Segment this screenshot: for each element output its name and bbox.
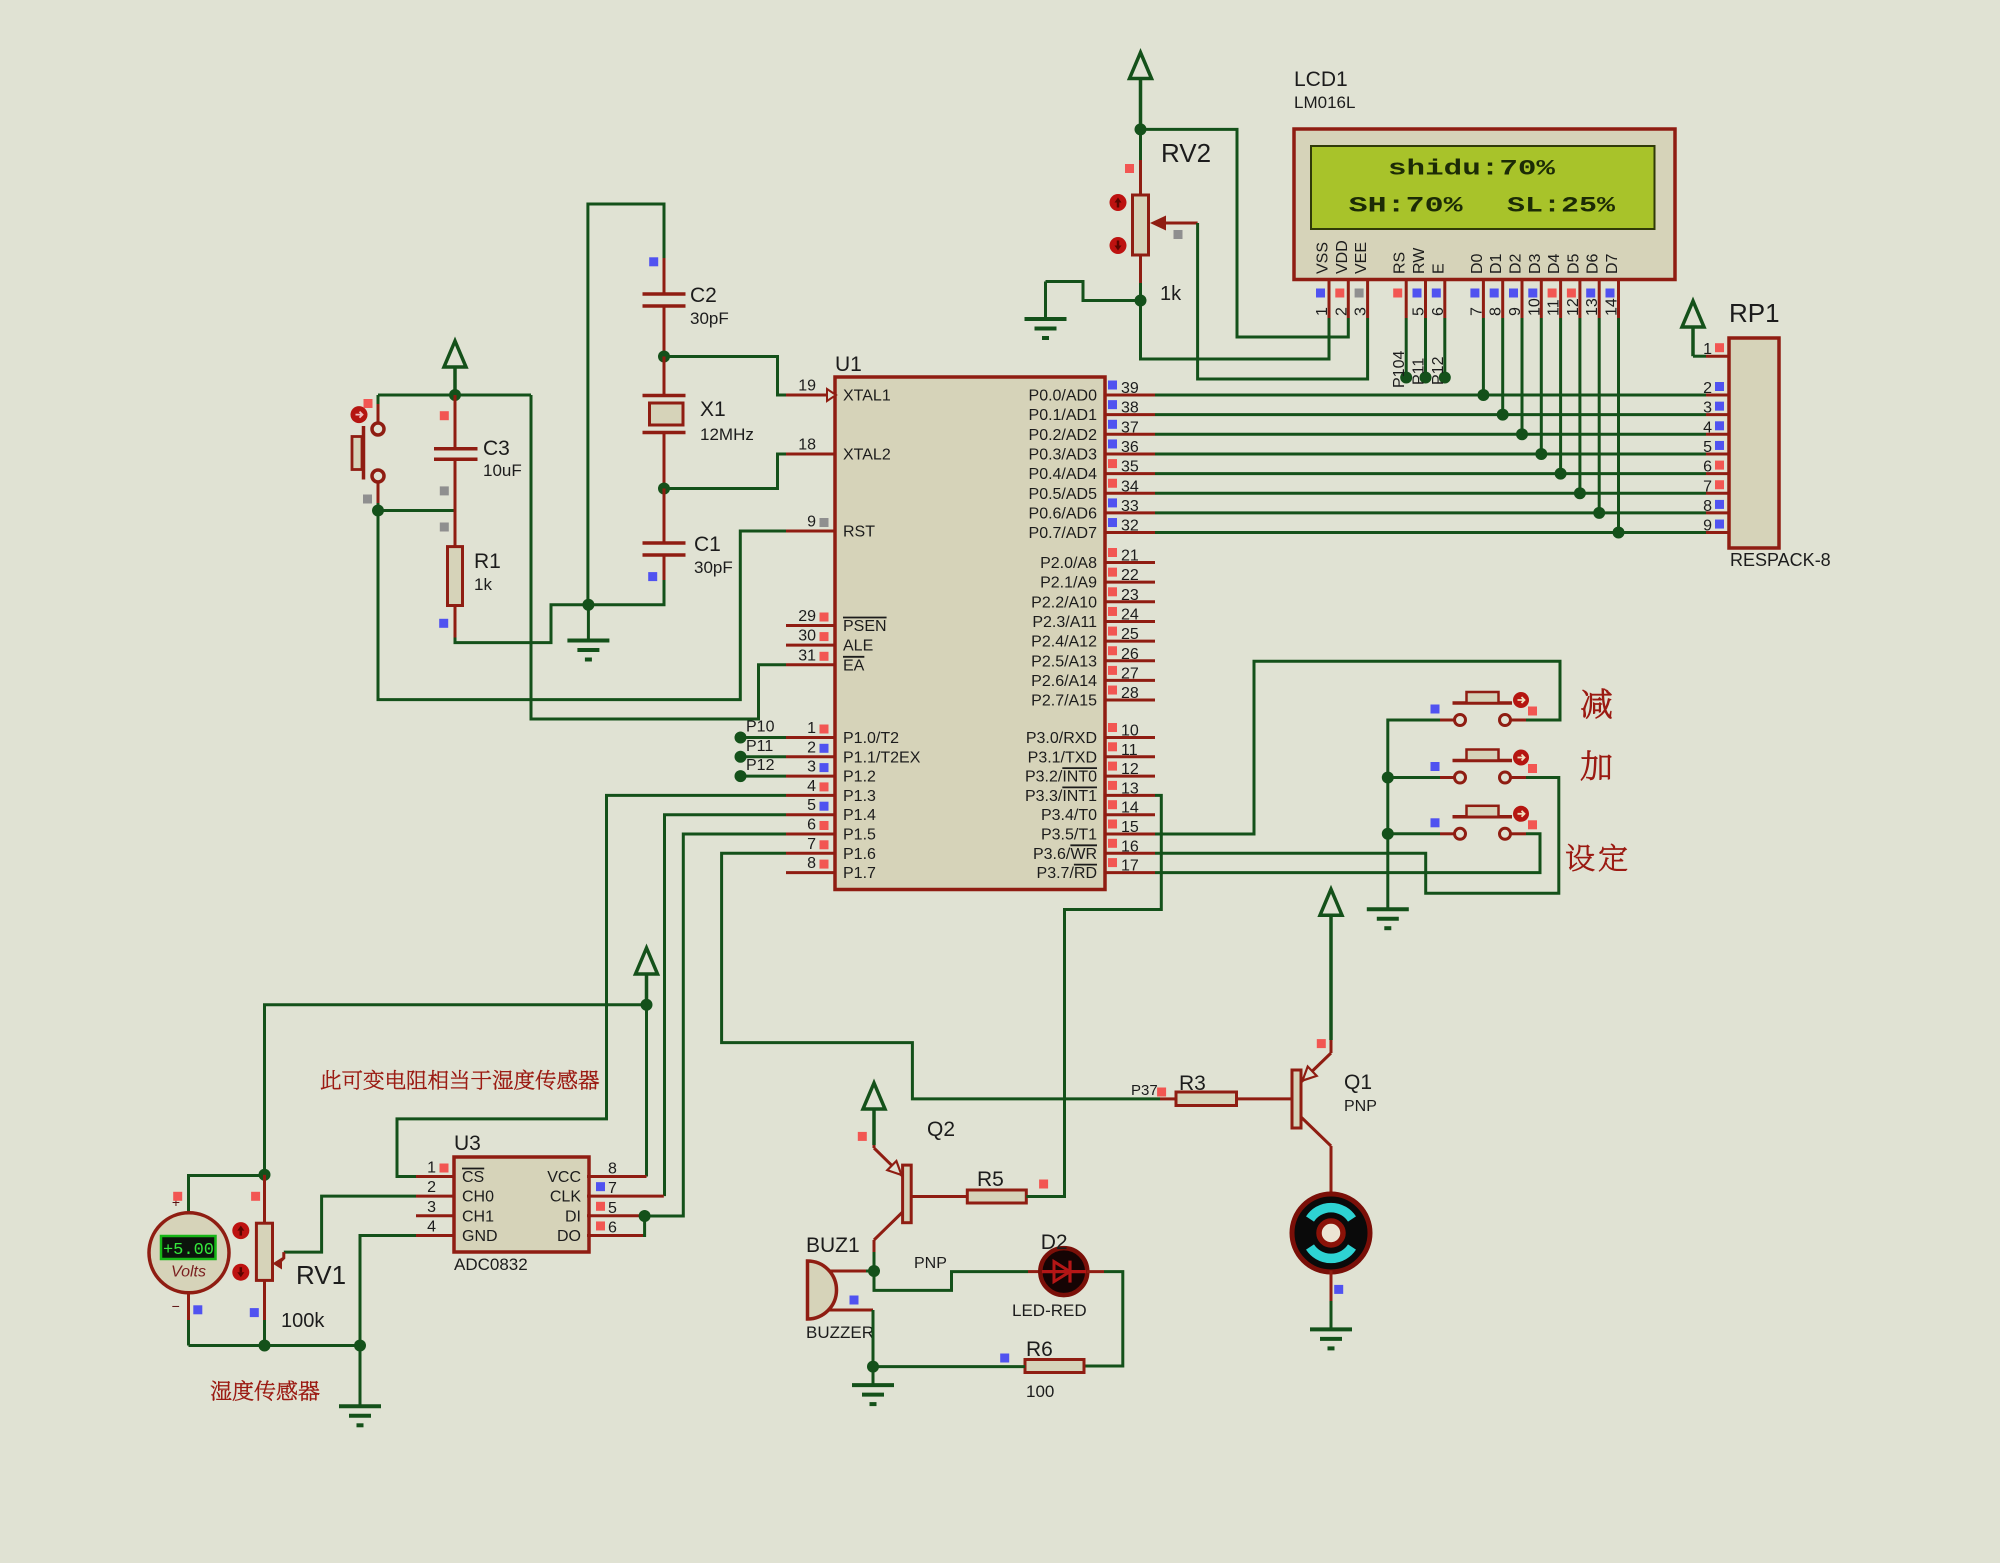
pin arrow XTAL1 bbox=[827, 389, 836, 401]
svg-text:Q2: Q2 bbox=[927, 1118, 955, 1141]
pin 24 P2.3/A11 bbox=[1032, 606, 1155, 631]
svg-text:30pF: 30pF bbox=[694, 558, 733, 577]
pin 11 P3.1/TXD bbox=[1028, 742, 1155, 767]
svg-text:11: 11 bbox=[1121, 742, 1138, 759]
svg-text:11: 11 bbox=[1546, 299, 1563, 316]
svg-text:Volts: Volts bbox=[171, 1264, 206, 1281]
pin 6 RP1 bbox=[1703, 459, 1729, 476]
svg-text:+5.00: +5.00 bbox=[163, 1241, 214, 1260]
LCD screen bbox=[1311, 146, 1655, 229]
pin 10 P3.0/RXD bbox=[1026, 723, 1155, 748]
svg-text:12: 12 bbox=[1121, 761, 1139, 778]
node P12 wire end bbox=[735, 770, 747, 782]
svg-text:P104: P104 bbox=[1391, 351, 1408, 388]
svg-text:36: 36 bbox=[1121, 439, 1139, 456]
svg-text:14: 14 bbox=[1604, 298, 1621, 316]
svg-text:29: 29 bbox=[798, 608, 816, 625]
pin 12 P3.2/INT0 bbox=[1025, 761, 1155, 786]
svg-text:6: 6 bbox=[807, 817, 816, 834]
IC U1 AT89C51 body bbox=[835, 377, 1105, 890]
wire btn3 left bbox=[1388, 832, 1440, 835]
pin 14 P3.4/T0 bbox=[1041, 800, 1155, 825]
pin 4 P1.3 bbox=[786, 778, 876, 805]
pin LCD D6 bbox=[1584, 253, 1602, 318]
pin 7 U3 CLK bbox=[550, 1180, 664, 1206]
svg-text:CH1: CH1 bbox=[462, 1208, 494, 1225]
svg-text:D3: D3 bbox=[1527, 253, 1544, 274]
svg-text:8: 8 bbox=[608, 1161, 617, 1178]
svg-text:X1: X1 bbox=[700, 398, 726, 421]
pin 35 P0.4/AD4 bbox=[1029, 459, 1155, 484]
svg-text:P2.7/A15: P2.7/A15 bbox=[1031, 693, 1097, 710]
svg-text:R6: R6 bbox=[1026, 1338, 1053, 1361]
svg-text:RV1: RV1 bbox=[296, 1260, 346, 1290]
pin 25 P2.4/A12 bbox=[1031, 626, 1155, 651]
IC U3 ADC0832 body bbox=[454, 1157, 589, 1252]
svg-text:P1.2: P1.2 bbox=[843, 769, 876, 786]
svg-text:P3.5/T1: P3.5/T1 bbox=[1041, 827, 1097, 844]
svg-text:2: 2 bbox=[807, 739, 816, 756]
wire button-to-C3 bottom bbox=[378, 509, 455, 512]
wire button bottom bbox=[377, 483, 380, 504]
svg-text:P1.1/T2EX: P1.1/T2EX bbox=[843, 749, 921, 766]
pin 5 RP1 bbox=[1703, 439, 1729, 456]
svg-text:P0.5/AD5: P0.5/AD5 bbox=[1029, 486, 1098, 503]
svg-text:30pF: 30pF bbox=[690, 309, 729, 328]
node RV2 bottom junction bbox=[1135, 295, 1147, 307]
pin 30 ALE bbox=[786, 628, 873, 655]
pin 6 P1.5 bbox=[786, 817, 876, 844]
svg-text:CLK: CLK bbox=[550, 1189, 581, 1206]
svg-text:100k: 100k bbox=[281, 1310, 325, 1332]
marker blue square (C2) bbox=[649, 257, 658, 266]
ground symbol (motor) bbox=[1310, 1327, 1352, 1331]
pin 34 P0.5/AD5 bbox=[1029, 478, 1155, 503]
pin 2 U3 CH0 bbox=[416, 1179, 494, 1206]
wire RP1 pin1 bbox=[1693, 355, 1706, 358]
pin 1 U3 CS bbox=[416, 1160, 484, 1187]
svg-text:C3: C3 bbox=[483, 437, 510, 460]
pin LCD RW bbox=[1411, 247, 1429, 318]
pin 5 U3 DI bbox=[565, 1200, 640, 1226]
marker grey square (RV2) bbox=[1174, 230, 1183, 239]
svg-text:ALE: ALE bbox=[843, 638, 873, 655]
svg-text:P12: P12 bbox=[746, 757, 775, 774]
svg-text:R1: R1 bbox=[474, 550, 501, 573]
wire ground to RV2 bbox=[1046, 282, 1141, 301]
wire P0.2 bus bbox=[1155, 433, 1706, 436]
svg-text:P2.6/A14: P2.6/A14 bbox=[1031, 673, 1097, 690]
svg-text:BUZZER: BUZZER bbox=[806, 1323, 874, 1342]
svg-text:P3.0/RXD: P3.0/RXD bbox=[1026, 730, 1097, 747]
indicator up (RV1) bbox=[232, 1222, 249, 1239]
svg-text:10uF: 10uF bbox=[483, 461, 522, 480]
svg-text:E: E bbox=[1430, 263, 1447, 274]
node RV1 bottom junction bbox=[259, 1340, 271, 1352]
wire P0.0 bus bbox=[1155, 394, 1706, 397]
wire D2 cathode to R6 bbox=[1084, 1272, 1123, 1366]
marker blue square (motor) bbox=[1334, 1285, 1343, 1294]
svg-text:XTAL2: XTAL2 bbox=[843, 446, 891, 463]
svg-text:P3.2/INT0: P3.2/INT0 bbox=[1025, 769, 1097, 786]
pin 26 P2.5/A13 bbox=[1031, 646, 1155, 671]
pushbutton set bbox=[1440, 806, 1529, 840]
node buzzer ground junction bbox=[867, 1361, 879, 1373]
svg-text:10: 10 bbox=[1526, 298, 1543, 316]
label jian (decrease) bbox=[1582, 689, 1612, 719]
node C2-X1 junction bbox=[658, 351, 670, 363]
svg-text:D4: D4 bbox=[1546, 253, 1563, 274]
wire P0.5 bus bbox=[1155, 492, 1706, 495]
resistor R6 bbox=[1025, 1360, 1084, 1373]
wire P1.5 to U3 DI bbox=[640, 834, 786, 1216]
svg-text:D0: D0 bbox=[1469, 253, 1486, 274]
pin LCD VEE bbox=[1353, 242, 1371, 318]
pin 13 P3.3/INT1 bbox=[1025, 780, 1155, 805]
wire LCD D3 drop bbox=[1540, 318, 1543, 454]
pin LCD VDD bbox=[1333, 240, 1351, 318]
wire LCD D7 drop bbox=[1617, 318, 1620, 533]
svg-text:5: 5 bbox=[807, 797, 816, 814]
svg-text:R5: R5 bbox=[977, 1168, 1004, 1191]
wire P3.7 to btn3 bbox=[1155, 834, 1540, 873]
svg-text:D6: D6 bbox=[1585, 253, 1602, 274]
node P0.6-D6 junction bbox=[1593, 507, 1605, 519]
wire CH0 to RV1 wiper bbox=[284, 1196, 416, 1252]
pin 39 P0.0/AD0 bbox=[1029, 380, 1155, 405]
resistor R3 bbox=[1160, 1092, 1292, 1106]
svg-text:P1.0/T2: P1.0/T2 bbox=[843, 730, 899, 747]
node bus-btn3 junction bbox=[1382, 828, 1394, 840]
node P0.5-D5 junction bbox=[1574, 487, 1586, 499]
marker grey square (button) bbox=[363, 495, 372, 504]
svg-text:15: 15 bbox=[1121, 819, 1139, 836]
wire R5 to P3.3 bbox=[1026, 795, 1161, 1196]
marker blue square (RV1) bbox=[250, 1308, 259, 1317]
pin LCD D4 bbox=[1546, 253, 1564, 318]
svg-text:P2.2/A10: P2.2/A10 bbox=[1031, 594, 1097, 611]
svg-text:P0.4/AD4: P0.4/AD4 bbox=[1029, 466, 1098, 483]
svg-text:39: 39 bbox=[1121, 380, 1139, 397]
node ground junction (crystal) bbox=[582, 599, 594, 611]
resistor R5 bbox=[967, 1190, 1026, 1203]
capacitor C3 bbox=[434, 395, 478, 511]
transistor Q2 PNP bbox=[874, 1145, 967, 1252]
svg-text:D1: D1 bbox=[1488, 253, 1505, 274]
pin 1 P1.0/T2 bbox=[786, 720, 899, 747]
resistor R1 bbox=[448, 511, 463, 638]
svg-text:U1: U1 bbox=[835, 353, 862, 376]
pin 5 P1.4 bbox=[786, 797, 876, 824]
svg-text:P3.4/T0: P3.4/T0 bbox=[1041, 807, 1097, 824]
node P0.1-D1 junction bbox=[1497, 409, 1509, 421]
svg-text:24: 24 bbox=[1121, 606, 1139, 623]
marker red square (RV1) bbox=[251, 1192, 260, 1201]
wire crystal top rail bbox=[588, 204, 664, 605]
svg-text:LED-RED: LED-RED bbox=[1012, 1301, 1087, 1320]
label jia (increase) bbox=[1581, 751, 1611, 781]
svg-text:7: 7 bbox=[807, 836, 816, 853]
svg-text:R3: R3 bbox=[1179, 1072, 1206, 1095]
indicator down (RV1) bbox=[232, 1264, 249, 1281]
transistor Q1 PNP bbox=[1292, 1040, 1331, 1185]
svg-text:RST: RST bbox=[843, 524, 875, 541]
svg-text:8: 8 bbox=[807, 855, 816, 872]
pin 33 P0.6/AD6 bbox=[1029, 498, 1155, 523]
svg-text:P11: P11 bbox=[746, 738, 773, 755]
svg-text:P12: P12 bbox=[1430, 356, 1447, 385]
wire LCD D6 drop bbox=[1598, 318, 1601, 513]
voltmeter +5.00 bbox=[149, 1213, 229, 1293]
ground symbol (sensor) bbox=[359, 1346, 362, 1407]
pin 9 RP1 bbox=[1703, 518, 1729, 535]
wire RV2 bottom bbox=[1139, 283, 1142, 301]
svg-text:37: 37 bbox=[1121, 419, 1139, 436]
svg-text:SH:70%: SH:70% bbox=[1349, 194, 1464, 219]
svg-text:P37: P37 bbox=[1131, 1082, 1158, 1099]
svg-text:18: 18 bbox=[798, 436, 816, 453]
svg-text:P10: P10 bbox=[746, 719, 775, 736]
wire VEE net bbox=[1198, 223, 1368, 379]
svg-text:PNP: PNP bbox=[1344, 1098, 1377, 1115]
svg-text:C1: C1 bbox=[694, 533, 721, 556]
svg-text:VEE: VEE bbox=[1353, 242, 1370, 274]
wire DO to DI bbox=[643, 1216, 645, 1235]
svg-text:13: 13 bbox=[1121, 780, 1139, 797]
power symbol VCC (Q1) bbox=[1320, 889, 1342, 915]
svg-text:12: 12 bbox=[1565, 298, 1582, 316]
svg-text:VCC: VCC bbox=[547, 1169, 581, 1186]
svg-text:6: 6 bbox=[608, 1219, 617, 1236]
svg-text:9: 9 bbox=[807, 514, 816, 531]
pin 4 RP1 bbox=[1703, 419, 1729, 436]
pin 21 P2.0/A8 bbox=[1040, 548, 1155, 573]
wire bottom rail (sensor) bbox=[189, 1344, 361, 1347]
pin 8 P1.7 bbox=[786, 855, 876, 882]
wire LCD D2 drop bbox=[1521, 318, 1524, 434]
svg-text:C2: C2 bbox=[690, 284, 717, 307]
pin LCD D3 bbox=[1526, 253, 1544, 318]
wire VDD net bbox=[1141, 129, 1349, 337]
svg-text:23: 23 bbox=[1121, 587, 1139, 604]
pin 18 XTAL2 bbox=[786, 436, 891, 463]
wire LCD D5 drop bbox=[1578, 318, 1581, 493]
node reset-bottom junction bbox=[372, 505, 384, 517]
svg-text:19: 19 bbox=[798, 378, 816, 395]
wire P0.6 bus bbox=[1155, 511, 1706, 514]
wire junction to D2 anode bbox=[874, 1271, 1028, 1290]
svg-text:RP1: RP1 bbox=[1729, 298, 1780, 328]
pin 3 RP1 bbox=[1703, 400, 1729, 417]
svg-text:5: 5 bbox=[1411, 307, 1428, 316]
node P11 wire end bbox=[735, 751, 747, 763]
wire LCD D0 drop bbox=[1482, 318, 1485, 395]
marker blue square (C1) bbox=[648, 572, 657, 581]
svg-text:1k: 1k bbox=[1160, 283, 1182, 305]
marker red square (btn1) bbox=[1528, 707, 1537, 716]
pushbutton reset bbox=[351, 406, 385, 482]
marker blue square (BUZ1) bbox=[850, 1296, 859, 1305]
svg-text:13: 13 bbox=[1584, 298, 1601, 316]
wire P1.3 to U3 CS bbox=[397, 795, 786, 1176]
wire P3.5 to btn1 bbox=[1155, 661, 1560, 834]
power symbol VCC (RV2) bbox=[1130, 53, 1152, 79]
svg-text:5: 5 bbox=[608, 1200, 617, 1217]
svg-text:P1.5: P1.5 bbox=[843, 827, 876, 844]
wire EA net bbox=[531, 395, 786, 719]
indicator up (RV2) bbox=[1110, 194, 1127, 211]
pin 22 P2.1/A9 bbox=[1040, 567, 1155, 592]
node P10 wire end bbox=[735, 732, 747, 744]
wire LCD D4 drop bbox=[1559, 318, 1562, 474]
svg-text:P2.4/A12: P2.4/A12 bbox=[1031, 634, 1097, 651]
wire P0.1 bus bbox=[1155, 413, 1706, 416]
ground symbol (RV2) bbox=[1044, 282, 1047, 320]
pin LCD RS bbox=[1392, 252, 1409, 318]
svg-text:P11: P11 bbox=[1411, 358, 1428, 385]
svg-text:12MHz: 12MHz bbox=[700, 425, 754, 444]
svg-text:P3.6/WR: P3.6/WR bbox=[1033, 846, 1097, 863]
ground symbol (buttons) bbox=[1367, 907, 1409, 911]
wire LCD D1 drop bbox=[1501, 318, 1504, 415]
RV2 wiper arrow bbox=[1162, 222, 1198, 225]
svg-text:P3.1/TXD: P3.1/TXD bbox=[1028, 749, 1097, 766]
marker red square (P37) bbox=[1157, 1088, 1166, 1097]
svg-text:RS: RS bbox=[1392, 252, 1409, 274]
svg-text:DO: DO bbox=[557, 1228, 581, 1245]
wire R1 bottom to ground bbox=[455, 605, 588, 643]
wire C1 bottom to ground bbox=[588, 580, 664, 605]
marker red square (voltmeter) bbox=[173, 1192, 182, 1201]
crystal X1 bbox=[643, 357, 686, 489]
wire LCD E net label P12 bbox=[1430, 318, 1451, 385]
RV1 wiper arrow bbox=[278, 1252, 284, 1263]
node RV2 top junction bbox=[1135, 123, 1147, 135]
wire Q1 collector to motor bbox=[1330, 1185, 1333, 1196]
motor M1 bbox=[1292, 1194, 1370, 1272]
node DI-DO junction bbox=[639, 1210, 651, 1222]
svg-text:17: 17 bbox=[1121, 858, 1139, 875]
wire motor bottom bbox=[1330, 1271, 1333, 1302]
svg-text:1: 1 bbox=[1314, 307, 1331, 316]
wire VCC drop to U3 bbox=[645, 1005, 648, 1177]
pin 32 P0.7/AD7 bbox=[1029, 518, 1155, 543]
node reset-top junction bbox=[449, 389, 461, 401]
note humidity sensor bbox=[211, 1381, 231, 1401]
svg-text:P2.0/A8: P2.0/A8 bbox=[1040, 555, 1097, 572]
node P0.0-D0 junction bbox=[1477, 389, 1489, 401]
svg-text:100: 100 bbox=[1026, 1382, 1054, 1401]
svg-text:EA: EA bbox=[843, 657, 865, 674]
pin 2 RP1 bbox=[1703, 380, 1729, 397]
pin 9 RST bbox=[786, 514, 875, 541]
svg-text:BUZ1: BUZ1 bbox=[806, 1234, 860, 1257]
svg-text:P0.3/AD3: P0.3/AD3 bbox=[1029, 446, 1098, 463]
wire btn2 left bbox=[1388, 776, 1440, 779]
svg-text:16: 16 bbox=[1121, 838, 1139, 855]
svg-text:P2.1/A9: P2.1/A9 bbox=[1040, 575, 1097, 592]
svg-text:1k: 1k bbox=[474, 575, 492, 594]
svg-text:CS: CS bbox=[462, 1169, 484, 1186]
svg-text:DI: DI bbox=[565, 1208, 581, 1225]
svg-text:P3.7/RD: P3.7/RD bbox=[1037, 865, 1097, 882]
power symbol VCC (RP1) bbox=[1682, 301, 1704, 327]
svg-text:SL:25%: SL:25% bbox=[1507, 194, 1616, 219]
marker grey square (R1) bbox=[440, 523, 449, 532]
wire reset top rail bbox=[378, 394, 531, 397]
LCD LCD1 body bbox=[1294, 129, 1675, 280]
svg-text:D7: D7 bbox=[1604, 253, 1621, 274]
svg-text:P0.1/AD1: P0.1/AD1 bbox=[1029, 407, 1098, 424]
node bus-btn2 junction bbox=[1382, 772, 1394, 784]
svg-text:VSS: VSS bbox=[1315, 242, 1332, 274]
capacitor C2 bbox=[643, 258, 686, 355]
svg-text:U3: U3 bbox=[454, 1132, 481, 1155]
svg-text:P3.3/INT1: P3.3/INT1 bbox=[1025, 788, 1097, 805]
wire button ground bus bbox=[1388, 720, 1440, 909]
svg-text:38: 38 bbox=[1121, 400, 1139, 417]
svg-text:32: 32 bbox=[1121, 518, 1139, 535]
capacitor C1 bbox=[643, 489, 686, 581]
marker red square (btn2) bbox=[1528, 764, 1537, 773]
svg-text:9: 9 bbox=[1507, 307, 1524, 316]
svg-text:3: 3 bbox=[427, 1199, 436, 1216]
pin 36 P0.3/AD3 bbox=[1029, 439, 1155, 464]
wire P0.3 bus bbox=[1155, 452, 1706, 455]
wire RV2 top stub bbox=[1139, 129, 1142, 160]
potentiometer RV1 bbox=[256, 1175, 272, 1346]
wire R6 to buzzer bottom bbox=[873, 1365, 1025, 1368]
wire RST net bbox=[378, 511, 786, 700]
marker red square (btn3) bbox=[1528, 820, 1537, 829]
svg-text:GND: GND bbox=[462, 1228, 498, 1245]
pin 38 P0.1/AD1 bbox=[1029, 400, 1155, 425]
marker red square (button) bbox=[364, 399, 373, 408]
wire voltmeter bottom bbox=[187, 1293, 190, 1320]
svg-text:P0.2/AD2: P0.2/AD2 bbox=[1029, 427, 1098, 444]
svg-text:22: 22 bbox=[1121, 567, 1139, 584]
wire +5V rail to RV1 bbox=[265, 1005, 647, 1175]
svg-text:−: − bbox=[172, 1298, 180, 1314]
marker blue square (btn1) bbox=[1431, 705, 1440, 714]
wire VSS net bbox=[1141, 301, 1330, 360]
marker blue square (btn3) bbox=[1431, 818, 1440, 827]
svg-text:2: 2 bbox=[427, 1179, 436, 1196]
wire P1.6 to R3 bbox=[722, 853, 1160, 1099]
indicator down (RV2) bbox=[1110, 237, 1127, 254]
pin 3 P1.2 bbox=[786, 759, 876, 786]
svg-text:3: 3 bbox=[1353, 307, 1370, 316]
pin 6 U3 DO bbox=[557, 1219, 643, 1245]
wire XTAL2 net bbox=[664, 454, 786, 489]
pushbutton decrease bbox=[1440, 692, 1529, 726]
pin LCD D0 bbox=[1468, 253, 1486, 318]
ground symbol (crystal) bbox=[587, 605, 590, 641]
pin LCD D2 bbox=[1507, 253, 1525, 318]
svg-text:21: 21 bbox=[1121, 548, 1139, 565]
svg-text:P1.4: P1.4 bbox=[843, 807, 876, 824]
pushbutton increase bbox=[1440, 750, 1529, 784]
pin 4 U3 GND bbox=[416, 1218, 498, 1245]
wire voltmeter top bbox=[189, 1176, 265, 1213]
pin 31 EA bbox=[786, 647, 865, 674]
svg-text:PNP: PNP bbox=[914, 1255, 947, 1272]
svg-text:25: 25 bbox=[1121, 626, 1139, 643]
pin 17 P3.7/RD bbox=[1037, 858, 1155, 883]
svg-text:30: 30 bbox=[798, 628, 816, 645]
pin LCD D7 bbox=[1604, 253, 1622, 318]
pin LCD VSS bbox=[1314, 242, 1332, 318]
